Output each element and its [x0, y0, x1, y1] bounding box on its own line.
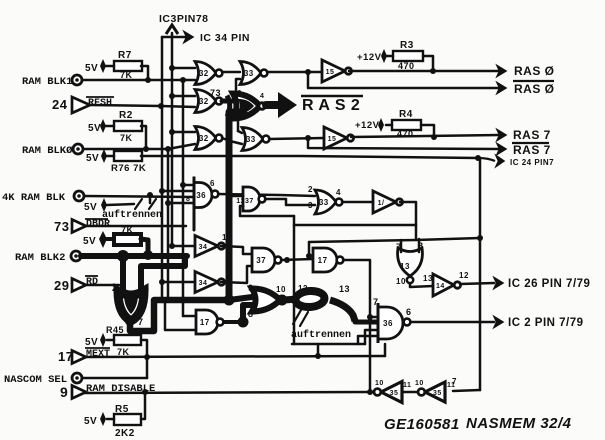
svg-text:13: 13: [400, 262, 410, 271]
arrow IC 24 PIN7: [496, 156, 504, 167]
arrow IC 2 PIN 7/79: [494, 317, 503, 328]
svg-text:IC 24 PIN7: IC 24 PIN7: [510, 158, 554, 167]
svg-text:35: 35: [390, 390, 399, 397]
wire stub to U36b input1: [370, 316, 378, 319]
wire net y225: [294, 224, 416, 227]
nand gate U37b: [252, 248, 275, 272]
svg-text:auftrennen: auftrennen: [291, 329, 351, 341]
svg-text:10: 10: [375, 380, 384, 387]
wire NASCOM SEL to R45 net: [82, 377, 147, 380]
svg-text:RFSH: RFSH: [88, 98, 112, 109]
svg-text:IC 34 PIN: IC 34 PIN: [200, 32, 250, 44]
svg-text:7: 7: [138, 317, 144, 327]
or gate U13 pointing down: [398, 248, 423, 276]
wire bypass to inverted RAS 0: [308, 72, 499, 88]
svg-text:+12V: +12V: [355, 120, 380, 131]
wire riser joining MEXT line: [317, 344, 320, 356]
svg-text:MEXT: MEXT: [86, 349, 110, 360]
arrow inverted RAS 7: [497, 144, 506, 155]
inverter U15a: [322, 60, 352, 82]
bold staircase wire to gate input 3: [141, 256, 185, 292]
wire vertical x294 down to auftrennen cut: [293, 216, 296, 344]
wire V1 to U34b input: [162, 281, 195, 284]
svg-text:RAS Ø: RAS Ø: [514, 64, 555, 78]
svg-text:6: 6: [406, 307, 412, 317]
bold or gate U7 pointing down: [118, 291, 144, 321]
wire riser at MEXT end: [384, 344, 387, 356]
svg-text:7: 7: [452, 377, 457, 386]
svg-text:10: 10: [276, 285, 286, 294]
bold auftrennen xor blob: [284, 299, 298, 300]
svg-text:12: 12: [459, 271, 469, 280]
svg-text:14: 14: [436, 283, 445, 290]
buffer 29 RD: [72, 279, 86, 292]
svg-text:RAS 7: RAS 7: [513, 128, 551, 142]
wire U14a output riser: [400, 202, 416, 240]
arrow IC 26 PIN 7/79: [494, 278, 503, 289]
resistor R2: [114, 121, 142, 131]
svg-text:7K: 7K: [120, 133, 133, 143]
svg-text:R3: R3: [400, 40, 414, 51]
svg-text:10: 10: [396, 277, 406, 286]
bold xor gate RAS2: [233, 94, 260, 119]
wire net y240 to x480: [309, 238, 480, 242]
svg-text:34: 34: [199, 280, 208, 287]
inverter U34a: [195, 236, 225, 257]
bold output dot of U7: [125, 316, 135, 326]
svg-text:4: 4: [336, 188, 341, 197]
nor gate U32b: [195, 90, 216, 113]
svg-text:RAM BLK2: RAM BLK2: [15, 252, 65, 264]
nor gate U33b: [242, 128, 263, 151]
svg-text:NASCOM SEL: NASCOM SEL: [4, 374, 67, 386]
resistor R7: [114, 61, 142, 71]
svg-text:R45: R45: [106, 325, 124, 335]
svg-text:R76 7K: R76 7K: [111, 163, 146, 174]
svg-text:1237: 1237: [236, 198, 254, 205]
wire vertical bus V3 x183: [182, 80, 185, 316]
wire U15a output to RAS 0 arrow: [349, 70, 499, 73]
svg-text:7K: 7K: [117, 347, 130, 357]
svg-text:R7: R7: [118, 50, 132, 61]
resistor R4: [392, 120, 421, 130]
svg-text:IC 2 PIN 7/79: IC 2 PIN 7/79: [508, 317, 584, 329]
svg-text:73: 73: [210, 88, 221, 98]
svg-text:32: 32: [199, 134, 209, 143]
wire shared node to xor and U33b: [237, 98, 240, 131]
svg-text:17: 17: [58, 349, 73, 364]
wire U37a input2 from MEXT net: [240, 206, 294, 216]
svg-text:6: 6: [210, 179, 215, 188]
svg-text:15: 15: [328, 136, 337, 143]
svg-text:R4: R4: [399, 109, 413, 120]
wire riser down to U17a input: [308, 242, 311, 254]
wire U35b input from x480 net: [453, 390, 480, 391]
buffer 24 RFSH: [72, 97, 90, 113]
wire U17a input junction: [306, 253, 312, 259]
svg-text:5V: 5V: [84, 202, 97, 213]
svg-text:1: 1: [222, 233, 227, 242]
terminal RAM BLK0: [73, 144, 83, 154]
inverter U15b: [324, 127, 354, 149]
wire U33b output to U15b input: [269, 138, 324, 139]
svg-text:R A S 2: R A S 2: [302, 97, 360, 114]
svg-text:5V: 5V: [86, 153, 99, 164]
cut marks auftrennen slashes: [135, 199, 142, 209]
wire U37b output to U17a: [281, 259, 313, 260]
resistor R45: [114, 335, 141, 345]
svg-text:33: 33: [246, 135, 256, 144]
wire vertical net x480 down: [479, 158, 482, 390]
svg-text:RAM BLK1: RAM BLK1: [22, 76, 72, 88]
svg-text:5V: 5V: [88, 123, 101, 134]
wire U32b output into xor: [222, 99, 233, 104]
svg-text:IC3PIN78: IC3PIN78: [159, 13, 209, 25]
arrow RAS 0: [497, 66, 506, 77]
wire V2 to U34a input: [172, 245, 195, 248]
svg-text:36: 36: [383, 319, 393, 328]
wire U35b output to U35a input: [402, 391, 418, 394]
arrow RAS 7: [497, 130, 506, 141]
wire U32c output to U33b input: [222, 138, 242, 144]
resistor R3: [393, 51, 423, 61]
terminal RAM BLK1: [72, 75, 82, 85]
bold arrow to RAS 2: [266, 101, 281, 109]
wire RAM DISABLE long net: [85, 392, 370, 393]
svg-text:13: 13: [339, 284, 350, 294]
svg-text:R5: R5: [115, 404, 129, 415]
svg-text:RD: RD: [86, 277, 98, 288]
wire U15b output to RAS 7 arrow: [351, 135, 499, 137]
svg-text:73: 73: [54, 219, 69, 234]
arrow right IC 34 PIN: [184, 32, 193, 43]
nand gate U17b: [196, 310, 218, 334]
wire U33a output to U15a input: [267, 71, 322, 74]
wire vertical bus V4 x168: [167, 149, 170, 300]
svg-text:RAS Ø: RAS Ø: [514, 82, 555, 96]
svg-text:GE160581: GE160581: [384, 416, 460, 433]
wire U35a output to node: [370, 391, 374, 394]
bold curve wire to U36b input: [330, 300, 355, 321]
wire bypass to inverted RAS 7: [308, 138, 499, 149]
terminal RAM BLK2: [71, 251, 81, 261]
svg-text:3: 3: [144, 283, 150, 293]
wire U34b output to U37b input: [221, 266, 252, 283]
svg-text:NASMEM 32/4: NASMEM 32/4: [466, 415, 572, 432]
terminal NASCOM SEL: [72, 373, 82, 383]
nor gate U32c: [195, 127, 216, 150]
svg-text:35: 35: [433, 390, 442, 397]
nor gate U33a: [240, 62, 261, 85]
svg-text:470: 470: [398, 61, 415, 71]
wire RAM BLK0 to NOR U32c input: [83, 144, 195, 149]
buffer 9 RAM DISABLE: [72, 386, 86, 399]
wire V2 to U32c input1: [172, 131, 195, 134]
svg-text:36: 36: [196, 191, 206, 200]
wire U32a output to U33a input: [222, 71, 240, 74]
nand gate U36 left 4-input: [194, 177, 212, 214]
nand gate U37a in box: [243, 187, 260, 211]
svg-text:2: 2: [112, 283, 118, 293]
svg-text:auftrennen: auftrennen: [102, 209, 162, 221]
wire U37a output to U33c input2: [265, 199, 315, 205]
svg-text:7K: 7K: [120, 70, 133, 80]
resistor R76: [114, 151, 142, 161]
resistor R5: [114, 414, 141, 425]
wire riser to U36b input3: [365, 330, 378, 344]
wire RFSH output to U32b input: [90, 105, 195, 107]
bold or gate U9: [252, 289, 280, 312]
nand gate U17a: [313, 248, 337, 272]
svg-text:7: 7: [373, 297, 379, 307]
wire vertical bus V1 x162: [161, 37, 164, 300]
bold wire resistor to RAM BLK2 net: [141, 239, 148, 255]
wire long net from R76 to IC 24 PIN7 junction: [141, 156, 478, 158]
svg-text:32: 32: [199, 69, 209, 78]
wire V2 to U32b input1: [172, 95, 195, 98]
svg-text:29: 29: [54, 278, 69, 293]
wire riser to U36b input4: [358, 336, 378, 344]
wire U17a output down net x370: [343, 260, 370, 392]
wire riser x165 to U17b input2: [165, 300, 196, 330]
svg-text:32: 32: [199, 97, 209, 106]
bold bus from xor lower input: [229, 112, 244, 300]
inverter U34b: [195, 272, 225, 293]
wire U17b output bold: [224, 320, 243, 324]
inverter U35a pointing left: [374, 382, 402, 403]
svg-text:4: 4: [260, 93, 264, 100]
wire IC 24 PIN7 branch: [475, 155, 481, 161]
svg-text:13: 13: [423, 274, 433, 283]
svg-text:RAS 7: RAS 7: [513, 143, 551, 157]
wire U37a input stub: [232, 195, 243, 198]
svg-text:9: 9: [248, 283, 254, 293]
wire horizontal under auftrennen: [292, 343, 365, 346]
svg-text:5V: 5V: [85, 63, 98, 74]
auftrennen cut slashes on x294 net: [293, 310, 301, 324]
bold wire RAM BLK2 down to gate input 2: [120, 256, 126, 291]
wire node to U33b input1: [238, 131, 242, 133]
svg-text:+12V: +12V: [357, 52, 382, 63]
wire U13 output to U14b: [410, 284, 433, 287]
svg-text:4K RAM BLK: 4K RAM BLK: [2, 192, 66, 204]
bold wire RAM BLK2 net: [81, 253, 187, 259]
svg-text:34: 34: [199, 244, 208, 251]
svg-text:IC 26 PIN 7/79: IC 26 PIN 7/79: [508, 278, 590, 290]
svg-text:7K: 7K: [121, 225, 134, 235]
svg-text:17: 17: [200, 318, 210, 327]
wire MEXT output net: [86, 356, 385, 357]
bold dot at U17b output: [238, 317, 249, 328]
nor gate U32a: [195, 62, 216, 85]
wire U36 inputs from buses: [183, 184, 194, 187]
wire U36b output to IC 2 arrow: [411, 321, 494, 324]
svg-text:15: 15: [326, 69, 335, 76]
bold wire bus to U9 input 9: [229, 297, 252, 300]
wire vertical bus V2 x172 with arrow up to IC3 PIN78: [171, 33, 174, 246]
wire U34a output to U37b input: [221, 246, 252, 254]
wire U36 output to NOR U33c input: [218, 194, 315, 196]
svg-text:24: 24: [52, 97, 68, 112]
svg-text:33: 33: [244, 69, 254, 78]
nor gate U33c: [315, 190, 336, 214]
nand gate U36b 4-input: [378, 303, 403, 343]
arrow inverted RAS 0: [497, 83, 506, 94]
svg-text:3: 3: [308, 201, 313, 210]
svg-text:11: 11: [403, 382, 411, 389]
svg-text:470: 470: [397, 129, 414, 139]
bold L wire up to U9 input 8: [243, 305, 252, 322]
arrow up IC3PIN78: [166, 25, 178, 34]
buffer 73 DBDR: [72, 220, 86, 233]
inverter U14b: [433, 274, 461, 296]
buffer 17 MEXT: [72, 351, 86, 364]
svg-text:10: 10: [415, 380, 424, 387]
bold blob at resistor join: [143, 250, 153, 260]
svg-text:DBDR: DBDR: [86, 219, 110, 230]
svg-text:17: 17: [318, 256, 328, 265]
svg-text:5V: 5V: [85, 337, 98, 348]
wire RD output to gate: [86, 284, 119, 287]
svg-text:2: 2: [308, 185, 313, 194]
wire top horizontal to IC 34 PIN arrow: [162, 36, 186, 39]
svg-text:1/: 1/: [378, 200, 385, 207]
wire DBDR output: [86, 225, 186, 228]
bold junction on y300: [224, 295, 235, 306]
svg-text:33: 33: [319, 198, 329, 207]
terminal 4K RAM BLK: [74, 191, 84, 201]
bold stub into U36b input2: [355, 320, 378, 325]
inverter U14a: [373, 191, 403, 213]
svg-text:5V: 5V: [84, 416, 97, 427]
bold output blob of U9: [277, 295, 288, 306]
wire input bar extension of U36: [193, 210, 196, 230]
inverter U35b pointing left: [418, 382, 445, 402]
svg-text:2K2: 2K2: [115, 428, 135, 439]
wire U13 input stubs: [400, 240, 403, 252]
wire shared input node down from U33a: [236, 79, 240, 90]
bold wire U7 output right and up to y300: [130, 300, 225, 331]
svg-text:9: 9: [60, 384, 68, 400]
svg-text:5V: 5V: [83, 236, 96, 247]
wire 4K RAM BLK to NAND U36 input: [84, 196, 194, 197]
wire U33c output to U14a: [342, 201, 373, 204]
wire U14b output to IC 26 arrow: [460, 283, 494, 284]
svg-text:RAM BLKØ: RAM BLKØ: [22, 145, 73, 157]
wire V3 riser to U17b input1: [183, 315, 196, 318]
svg-text:12: 12: [298, 284, 308, 293]
wire RAM BLK1 to NOR U32a input: [82, 79, 195, 82]
svg-text:R2: R2: [119, 110, 133, 121]
bold resistor R 7K for RAM BLK2: [114, 234, 141, 245]
svg-text:37: 37: [256, 256, 266, 265]
wire V2 to U32a input1: [172, 67, 195, 70]
